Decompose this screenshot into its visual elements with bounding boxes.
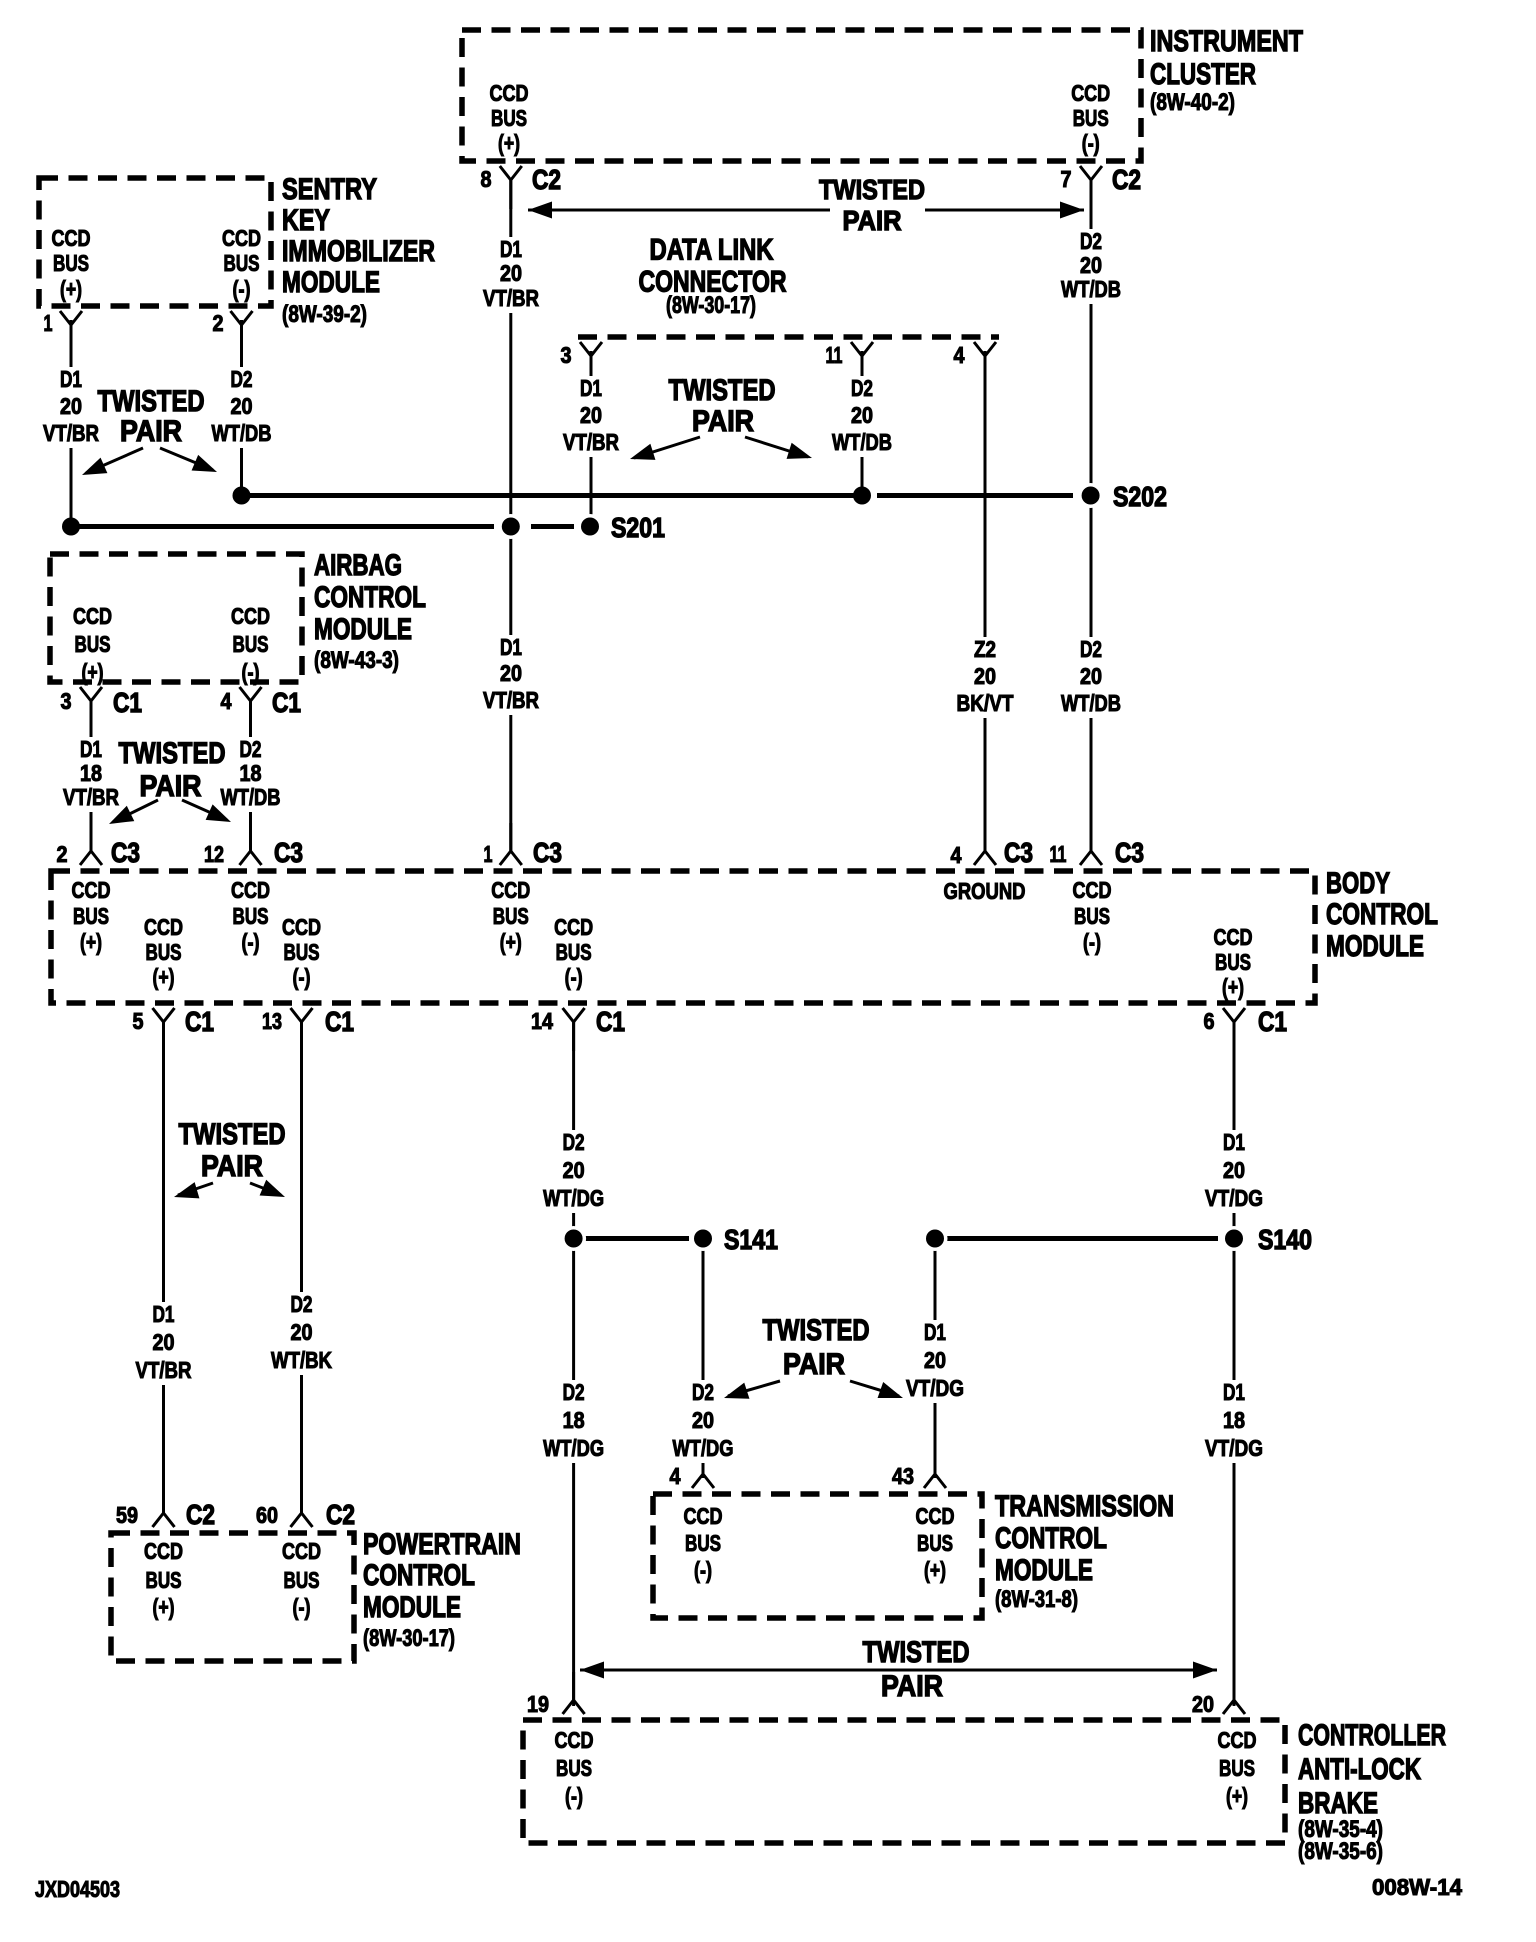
wire IC pin8 to BCM pin1 (D1 VT/BR) [509,180,512,853]
svg-text:20: 20 [500,260,522,286]
svg-text:VT/DG: VT/DG [906,1375,964,1401]
svg-text:(-): (-) [293,1594,311,1620]
label wire D2 20 WT/DG upper [539,1130,608,1213]
svg-text:D2: D2 [231,366,253,392]
svg-text:4: 4 [670,1463,681,1489]
svg-text:(+): (+) [1222,974,1244,1000]
svg-text:BUS: BUS [284,939,320,965]
svg-text:C1: C1 [185,1006,214,1037]
svg-text:VT/BR: VT/BR [563,429,619,455]
instrument cluster module box [462,30,1141,161]
svg-text:C1: C1 [325,1006,354,1037]
svg-text:43: 43 [892,1463,914,1489]
wire BCM pin6 to CAB pin20 (D1 VT/DG) [1233,1022,1236,1706]
svg-text:TWISTED: TWISTED [763,1314,870,1347]
svg-text:C2: C2 [532,164,561,195]
svg-text:(8W-35-6): (8W-35-6) [1298,1838,1383,1865]
wire BCM pin14 to CAB pin19 (D2 WT/DG) [572,1022,575,1706]
svg-text:CCD: CCD [52,225,91,251]
svg-text:4: 4 [221,688,232,714]
svg-text:CCD: CCD [1214,924,1253,950]
svg-text:(8W-30-17): (8W-30-17) [363,1625,455,1652]
connector BCM pin 14 C1 [563,1008,585,1051]
svg-text:CCD: CCD [73,603,112,629]
svg-text:GROUND: GROUND [944,878,1026,904]
svg-text:CLUSTER: CLUSTER [1150,58,1256,91]
svg-text:13: 13 [262,1008,282,1034]
svg-text:BUS: BUS [556,1755,592,1781]
svg-text:18: 18 [80,760,102,786]
svg-text:PAIR: PAIR [783,1348,845,1381]
airbag control module box [50,554,302,682]
svg-text:D1: D1 [60,366,82,392]
svg-text:20: 20 [924,1347,946,1373]
svg-text:CCD: CCD [282,1538,321,1564]
connector DLC pin 4 [974,342,996,385]
svg-text:(-): (-) [565,964,583,990]
svg-text:D2: D2 [291,1291,313,1317]
connector IC pin 7 C2 [1080,166,1102,209]
connector PCM pin 59 C2 [153,1485,175,1527]
label wire D1 20 VT/BR sentry [39,367,103,448]
svg-text:D1: D1 [924,1319,946,1345]
connector BCM pin 1 C3 [500,823,522,865]
svg-text:PAIR: PAIR [692,405,754,438]
svg-text:VT/DG: VT/DG [1205,1435,1263,1461]
svg-text:TWISTED: TWISTED [119,737,226,770]
svg-text:C3: C3 [1115,837,1144,868]
svg-text:C1: C1 [272,687,301,718]
svg-text:IMMOBILIZER: IMMOBILIZER [282,235,435,268]
svg-text:BUS: BUS [146,1567,182,1593]
label wire D2 18 WT/DG [539,1380,608,1463]
svg-text:1: 1 [44,310,53,336]
label wire D1 20 VT/BR DLC [559,376,623,457]
svg-text:CCD: CCD [555,1727,594,1753]
svg-text:PAIR: PAIR [843,205,902,236]
twisted pair label IC [528,209,1084,212]
svg-text:1: 1 [484,841,493,867]
svg-text:PAIR: PAIR [140,770,202,803]
svg-text:CCD: CCD [144,914,183,940]
svg-text:(-): (-) [242,929,260,955]
svg-text:CCD: CCD [1071,80,1110,106]
svg-text:D1: D1 [500,236,522,262]
svg-text:20: 20 [291,1319,313,1345]
svg-text:(-): (-) [242,659,260,685]
svg-text:CCD: CCD [231,877,270,903]
connector CAB pin 19 [563,1672,585,1714]
wire BCM pin5 to PCM pin59 [162,1022,165,1514]
svg-text:PAIR: PAIR [201,1150,263,1183]
svg-text:S141: S141 [724,1224,778,1255]
label wire D1 20 VT/BR PCM [132,1302,196,1385]
svg-text:CCD: CCD [282,914,321,940]
svg-text:TWISTED: TWISTED [819,174,925,205]
svg-text:(-): (-) [694,1557,712,1583]
svg-text:(+): (+) [60,276,82,302]
svg-text:CCD: CCD [222,225,261,251]
connector BCM pin 13 C1 [291,1008,313,1051]
svg-text:(-): (-) [1083,929,1101,955]
wire S141 to TCM pin4 [702,1239,705,1479]
svg-text:JXD04503: JXD04503 [35,1876,120,1902]
svg-text:S201: S201 [611,512,665,543]
svg-text:WT/DG: WT/DG [543,1435,604,1461]
connector airbag pin 4 C1 [240,687,262,730]
svg-text:20: 20 [1192,1691,1214,1717]
connector airbag pin 3 C1 [80,687,102,730]
svg-text:WT/DB: WT/DB [1061,276,1121,302]
bus wire S201 [71,524,494,529]
svg-text:BUS: BUS [233,903,269,929]
svg-text:6: 6 [1204,1008,1215,1034]
svg-text:PAIR: PAIR [881,1670,943,1703]
svg-text:BUS: BUS [53,250,89,276]
svg-text:VT/BR: VT/BR [63,784,119,810]
svg-text:20: 20 [580,402,602,428]
svg-text:18: 18 [240,760,262,786]
svg-text:C1: C1 [1258,1006,1287,1037]
svg-text:C3: C3 [533,837,562,868]
svg-text:CONTROL: CONTROL [1326,898,1438,931]
svg-text:VT/BR: VT/BR [43,420,99,446]
svg-text:8: 8 [481,166,492,192]
svg-text:POWERTRAIN: POWERTRAIN [363,1528,521,1561]
svg-text:CONTROL: CONTROL [363,1559,475,1592]
label wire D1 18 VT/DG [1201,1380,1267,1463]
connector DLC pin 3 [580,342,602,385]
svg-text:DATA LINK: DATA LINK [650,234,774,267]
svg-text:S140: S140 [1258,1224,1312,1255]
svg-text:20: 20 [231,393,253,419]
svg-text:11: 11 [1050,841,1067,867]
connector BCM pin 11 C3 [1080,823,1102,865]
svg-text:20: 20 [153,1329,175,1355]
bus wire S202 [242,493,854,498]
label wire D2 18 WT/DB airbag [217,737,285,812]
twisted pair label CAB [580,1669,1217,1672]
svg-text:3: 3 [561,342,572,368]
label wire Z2 20 BK/VT [953,637,1018,718]
svg-text:20: 20 [60,393,82,419]
label wire D1 20 VT/BR mid [479,635,543,715]
svg-text:BUS: BUS [685,1530,721,1556]
svg-text:(+): (+) [153,964,175,990]
svg-text:MODULE: MODULE [1326,930,1424,963]
svg-text:WT/DG: WT/DG [673,1435,734,1461]
svg-text:D2: D2 [240,736,262,762]
svg-text:59: 59 [116,1502,138,1528]
svg-text:WT/DB: WT/DB [221,784,281,810]
svg-text:BODY: BODY [1326,867,1390,900]
svg-text:20: 20 [563,1157,585,1183]
splice S140 [923,1226,948,1251]
svg-text:SENTRY: SENTRY [282,173,377,206]
svg-text:(-): (-) [293,964,311,990]
wire DLC pin11 to S202 [861,351,864,496]
connector BCM pin 5 C1 [153,1008,175,1051]
svg-text:(+): (+) [153,1594,175,1620]
label wire D1 20 VT/BR upper [479,237,543,313]
svg-text:WT/DB: WT/DB [1061,690,1121,716]
wire S140 to TCM pin43 [934,1239,937,1479]
svg-text:20: 20 [1223,1157,1245,1183]
svg-text:BUS: BUS [493,903,529,929]
svg-text:WT/BK: WT/BK [271,1347,332,1373]
svg-text:VT/DG: VT/DG [1205,1185,1263,1211]
label wire D2 20 WT/BK PCM [267,1292,336,1375]
transmission control module box [653,1494,982,1618]
svg-text:(-): (-) [233,276,251,302]
svg-text:CCD: CCD [231,603,270,629]
wire DLC pin4 to BCM pin4 (Z2 BK/VT) [984,351,987,853]
svg-text:(8W-39-2): (8W-39-2) [282,301,367,328]
bus wire S141 [584,1236,689,1241]
svg-text:VT/BR: VT/BR [483,687,539,713]
svg-text:2: 2 [57,841,68,867]
svg-text:C3: C3 [111,837,140,868]
svg-text:BUS: BUS [917,1530,953,1556]
svg-text:AIRBAG: AIRBAG [314,549,402,582]
connector CAB pin 20 [1223,1672,1245,1714]
wire BCM pin13 to PCM pin60 [300,1022,303,1514]
connector TCM pin 43 [924,1446,946,1488]
svg-text:D1: D1 [1223,1129,1245,1155]
svg-text:PAIR: PAIR [120,415,182,448]
splice S141 [561,1226,586,1251]
svg-text:(8W-43-3): (8W-43-3) [314,647,399,674]
svg-text:MODULE: MODULE [995,1554,1093,1587]
svg-text:WT/DG: WT/DG [543,1185,604,1211]
svg-text:D1: D1 [1223,1379,1245,1405]
connector BCM pin 2 C3 [80,823,102,865]
svg-text:(8W-31-8): (8W-31-8) [995,1586,1078,1613]
splice S201 [62,518,80,536]
svg-text:BUS: BUS [233,631,269,657]
svg-text:BUS: BUS [224,250,260,276]
label wire D2 20 WT/DB DLC [828,376,896,457]
svg-text:(+): (+) [500,929,522,955]
svg-text:20: 20 [1080,663,1102,689]
svg-text:TWISTED: TWISTED [669,374,776,407]
wire airbag pin4 to BCM pin12 [249,702,252,853]
svg-text:CCD: CCD [916,1503,955,1529]
svg-text:TWISTED: TWISTED [98,385,205,418]
svg-text:C1: C1 [596,1006,625,1037]
svg-text:CONTROL: CONTROL [314,581,426,614]
svg-text:18: 18 [563,1407,585,1433]
svg-text:2: 2 [213,310,224,336]
label wire D1 18 VT/BR airbag [59,737,123,812]
svg-text:CCD: CCD [72,877,111,903]
svg-text:Z2: Z2 [974,636,996,662]
svg-text:CONTROLLER: CONTROLLER [1298,1719,1446,1752]
sentry key immobilizer module box [39,178,271,306]
svg-text:BUS: BUS [1074,903,1110,929]
label wire D2 20 WT/DB sentry [208,367,276,448]
connector BCM pin 6 C1 [1223,1008,1245,1051]
svg-text:C3: C3 [1004,837,1033,868]
svg-text:(+): (+) [80,929,102,955]
svg-text:CCD: CCD [144,1538,183,1564]
svg-text:4: 4 [951,842,962,868]
svg-text:D2: D2 [1080,636,1102,662]
svg-text:BUS: BUS [491,105,527,131]
connector PCM pin 60 C2 [291,1485,313,1527]
svg-text:MODULE: MODULE [363,1591,461,1624]
connector sentry pin 2 [231,311,253,354]
svg-text:18: 18 [1223,1407,1245,1433]
svg-text:60: 60 [256,1502,278,1528]
svg-text:D2: D2 [1080,228,1102,254]
svg-text:C3: C3 [274,837,303,868]
svg-text:20: 20 [500,660,522,686]
svg-text:S202: S202 [1113,481,1167,512]
svg-text:11: 11 [826,342,843,368]
connector BCM pin 4 C3 [974,823,996,865]
svg-text:(8W-30-17): (8W-30-17) [666,292,756,319]
svg-text:D2: D2 [692,1379,714,1405]
splice S202 [233,487,251,505]
svg-text:INSTRUMENT: INSTRUMENT [1150,25,1303,58]
wire airbag pin3 to BCM pin2 [90,702,93,853]
svg-text:7: 7 [1061,166,1072,192]
svg-text:BUS: BUS [146,939,182,965]
svg-text:14: 14 [531,1008,553,1034]
svg-text:D1: D1 [580,375,602,401]
svg-text:CONTROL: CONTROL [995,1522,1107,1555]
svg-text:D2: D2 [563,1379,585,1405]
svg-text:BUS: BUS [1073,105,1109,131]
connector BCM pin 12 C3 [240,823,262,865]
wire DLC pin3 to S201 [590,351,593,527]
label wire D2 20 WT/DB mid [1057,637,1125,718]
svg-text:20: 20 [692,1407,714,1433]
powertrain control module box [111,1533,354,1661]
svg-text:C2: C2 [326,1499,355,1530]
svg-text:(+): (+) [82,659,104,685]
svg-text:(+): (+) [498,130,520,156]
svg-text:ANTI-LOCK: ANTI-LOCK [1298,1753,1421,1786]
svg-text:BUS: BUS [556,939,592,965]
data link connector edge [578,334,999,340]
svg-text:CCD: CCD [554,914,593,940]
controller anti-lock brake box [523,1720,1285,1843]
svg-text:5: 5 [133,1008,144,1034]
svg-text:CCD: CCD [490,80,529,106]
svg-text:(+): (+) [1226,1783,1248,1809]
svg-text:(-): (-) [565,1783,583,1809]
connector sentry pin 1 [60,311,82,354]
svg-text:D1: D1 [80,736,102,762]
svg-text:WT/DB: WT/DB [832,429,892,455]
svg-text:008W-14: 008W-14 [1372,1874,1462,1900]
svg-text:BUS: BUS [1215,949,1251,975]
svg-text:BK/VT: BK/VT [957,690,1014,716]
svg-text:(8W-40-2): (8W-40-2) [1150,89,1235,116]
wire IC pin7 to BCM pin11 (D2 WT/DB) [1090,180,1093,853]
body control module box [51,871,1315,1003]
connector DLC pin 11 [851,342,873,385]
svg-text:(+): (+) [924,1557,946,1583]
svg-text:3: 3 [61,688,72,714]
svg-text:TWISTED: TWISTED [179,1118,286,1151]
svg-text:BUS: BUS [284,1567,320,1593]
svg-text:4: 4 [954,342,965,368]
wire sentry pin1 to S201 [70,320,73,527]
svg-text:CCD: CCD [491,877,530,903]
label wire D2 20 WT/DG TCM [669,1380,738,1463]
svg-text:D1: D1 [500,634,522,660]
svg-text:WT/DB: WT/DB [212,420,272,446]
wire sentry pin2 to S202 [240,320,243,496]
svg-text:D1: D1 [153,1301,175,1327]
svg-text:20: 20 [851,402,873,428]
svg-text:(-): (-) [1082,130,1100,156]
bus wire S140 [946,1236,1218,1241]
svg-text:BUS: BUS [73,903,109,929]
svg-text:VT/BR: VT/BR [136,1357,192,1383]
svg-text:TRANSMISSION: TRANSMISSION [995,1490,1174,1523]
svg-text:CCD: CCD [1073,877,1112,903]
svg-text:MODULE: MODULE [282,266,380,299]
svg-text:C2: C2 [186,1499,215,1530]
label wire D2 20 WT/DB upper [1057,229,1125,304]
svg-text:C1: C1 [113,687,142,718]
svg-text:12: 12 [204,841,224,867]
label wire D1 20 VT/DG TCM [902,1320,968,1403]
svg-text:TWISTED: TWISTED [863,1636,970,1669]
svg-text:KEY: KEY [282,204,330,237]
svg-text:MODULE: MODULE [314,613,412,646]
svg-text:BUS: BUS [1219,1755,1255,1781]
svg-text:D2: D2 [563,1129,585,1155]
svg-text:BUS: BUS [75,631,111,657]
svg-text:20: 20 [1080,252,1102,278]
svg-text:D2: D2 [851,375,873,401]
svg-text:VT/BR: VT/BR [483,285,539,311]
svg-text:20: 20 [974,663,996,689]
svg-text:CCD: CCD [1218,1727,1257,1753]
connector TCM pin 4 [692,1446,714,1488]
svg-text:19: 19 [527,1691,549,1717]
svg-text:CCD: CCD [684,1503,723,1529]
connector IC pin 8 C2 [500,166,522,209]
label wire D1 20 VT/DG upper [1201,1130,1267,1213]
svg-text:C2: C2 [1112,164,1141,195]
